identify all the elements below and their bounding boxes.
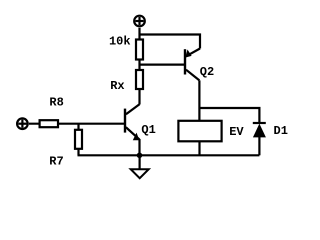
svg-text:Rx: Rx [110, 79, 124, 93]
Q1 emitter arrowhead [133, 133, 140, 141]
wire supply to 10k [138, 28, 140, 40]
svg-text:D1: D1 [274, 124, 288, 138]
transistor Q2 [185, 49, 200, 81]
svg-text:EV: EV [229, 125, 244, 139]
coil EV [178, 121, 221, 142]
ground [139, 155, 141, 169]
junction dot [137, 153, 143, 159]
wire input to Q1 base [29, 123, 125, 125]
svg-text:10k: 10k [109, 35, 131, 49]
wire top rail to Q2 emitter [140, 35, 201, 49]
resistor R7 [75, 130, 82, 149]
transistor Q1 [125, 104, 140, 139]
R7 bottom stub [77, 149, 79, 156]
wire junction to Q2 base [140, 63, 185, 65]
supply terminal (circle with plus) [134, 16, 145, 27]
Q2 collector wire down [198, 80, 200, 121]
wire Q2 collector to D1 top [199, 108, 259, 123]
resistor R8 [40, 120, 58, 127]
input terminal (circle with plus) [17, 118, 28, 129]
diode D1 [253, 123, 266, 155]
Q1 emitter wire down [138, 139, 140, 155]
Q2 emitter arrowhead (PNP, pointing into bar) [185, 50, 191, 58]
svg-text:R7: R7 [49, 154, 63, 168]
resistor Rx [136, 70, 143, 89]
svg-text:R8: R8 [49, 95, 63, 109]
EV bottom stub [198, 141, 200, 155]
svg-text:Q1: Q1 [141, 123, 155, 137]
wire Rx to Q1 collector [138, 89, 140, 105]
svg-text:Q2: Q2 [200, 65, 214, 79]
wire 10k to Rx junction [138, 60, 140, 71]
bottom rail [78, 154, 260, 156]
resistor 10k [136, 40, 143, 60]
R7 top stub [77, 124, 79, 130]
